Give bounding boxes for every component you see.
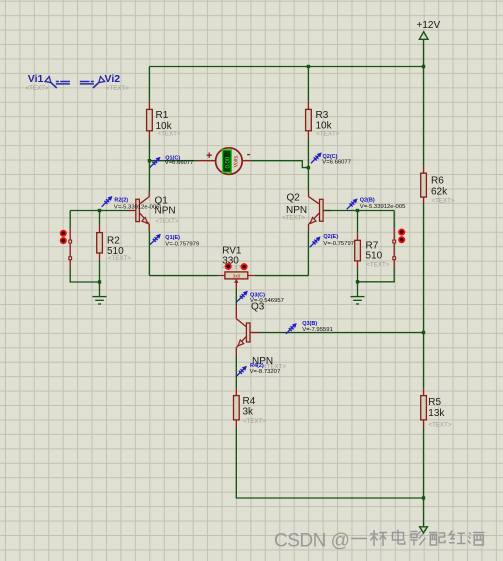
svg-text:510: 510	[366, 250, 383, 261]
svg-text:Volts: Volts	[234, 155, 240, 167]
transistor Q3	[236, 301, 286, 370]
node junction dot rail-R3	[307, 65, 310, 68]
voltage probe Q2(B)	[347, 198, 406, 211]
label Vi2	[105, 73, 130, 92]
wire collector node Q1 to meter	[149, 160, 196, 162]
wire R6 to base node	[423, 205, 425, 333]
svg-text:<TEXT>: <TEXT>	[432, 197, 455, 204]
svg-text:0.00: 0.00	[225, 156, 231, 168]
wire Q3 base to R5 node	[258, 332, 424, 334]
svg-text:3k: 3k	[243, 407, 255, 418]
voltage probe R2(2)	[102, 197, 161, 211]
transistor Q2	[282, 191, 331, 232]
svg-text:R2(2): R2(2)	[114, 197, 128, 203]
wire R1 column	[148, 67, 150, 161]
source element right (Vi2 source body)	[393, 228, 405, 268]
resistor R4	[234, 388, 267, 427]
resistor R6	[421, 67, 455, 205]
svg-text:V=-8.73207: V=-8.73207	[250, 369, 281, 375]
voltmeter	[197, 148, 251, 175]
node junction dot R7 top	[356, 209, 359, 212]
svg-text:<TEXT>: <TEXT>	[366, 262, 389, 269]
svg-text:V=-5.33912e-005: V=-5.33912e-005	[114, 205, 160, 211]
svg-text:V=-0.757979: V=-0.757979	[323, 241, 357, 247]
svg-text:R3: R3	[316, 110, 329, 121]
wire R5 to ground arrow	[423, 428, 425, 527]
power terminal +12V	[417, 20, 441, 39]
svg-text:<TEXT>: <TEXT>	[316, 131, 339, 138]
voltage probe Q1(C)	[150, 155, 194, 167]
wire R3 column	[307, 67, 309, 168]
node junction dot rail-R6	[422, 65, 425, 68]
node junction dot Q2 collector	[307, 166, 310, 169]
svg-text:R6: R6	[431, 176, 444, 187]
resistor R2	[97, 211, 132, 283]
potentiometer RV1	[218, 245, 255, 289]
wire RV1 wiper to Q3	[235, 289, 237, 305]
svg-text:V=6.66077: V=6.66077	[165, 160, 194, 166]
svg-text:R4: R4	[243, 396, 256, 407]
svg-text:V=-7.95591: V=-7.95591	[302, 327, 333, 333]
wire Q1 base net	[70, 211, 128, 229]
wire R2 to ground	[99, 282, 101, 297]
wire RV1 to Q2 emitter	[255, 275, 309, 277]
svg-text:<TEXT>: <TEXT>	[429, 421, 452, 428]
ground left	[93, 297, 107, 304]
voltage probe R4(2)	[236, 363, 280, 377]
voltage probe Q1(E)	[150, 235, 199, 248]
svg-text:Q2(E): Q2(E)	[323, 234, 338, 240]
wire emitter rail to RV1	[149, 275, 217, 277]
transistor Q1	[128, 191, 179, 232]
svg-text:V=-0.757979: V=-0.757979	[165, 242, 199, 248]
wire Q1 collector	[148, 161, 150, 191]
wire Q2 collector	[307, 168, 309, 191]
label Vi1	[26, 73, 49, 92]
svg-text:R5: R5	[428, 397, 441, 408]
svg-text:62k: 62k	[431, 186, 448, 197]
svg-text:V=-5.33912e-005: V=-5.33912e-005	[360, 204, 406, 210]
voltage probe Q2(C)	[311, 153, 351, 165]
resistor R5	[421, 333, 452, 429]
svg-text:Q2: Q2	[287, 192, 301, 203]
wire +12V rail top	[149, 39, 423, 66]
wire Q1 emitter down	[148, 231, 150, 275]
ground right	[351, 297, 365, 304]
voltage probe Q3(C)	[237, 291, 284, 304]
svg-text:Vi1: Vi1	[28, 73, 44, 85]
svg-text:Vi2: Vi2	[105, 73, 121, 85]
resistor R7	[355, 211, 390, 282]
wire Q2 base net	[324, 211, 395, 229]
resistor R3	[306, 102, 340, 139]
node junction dot base-R6-R5	[422, 331, 425, 334]
svg-text:R1: R1	[156, 110, 169, 121]
generator Vi2	[80, 77, 105, 89]
svg-text:<TEXT>: <TEXT>	[282, 214, 305, 221]
svg-text:<TEXT>: <TEXT>	[106, 85, 129, 92]
svg-text:Q1(E): Q1(E)	[165, 235, 180, 241]
node junction dot R7 bottom	[356, 280, 359, 283]
resistor R1	[147, 102, 181, 139]
svg-text:<TEXT>: <TEXT>	[243, 418, 266, 425]
watermark	[274, 530, 485, 552]
generator Vi1	[45, 77, 70, 89]
node junction dot Q1 collector	[148, 159, 151, 162]
svg-text:<TEXT>: <TEXT>	[26, 85, 49, 92]
svg-text:V=6.66077: V=6.66077	[322, 159, 351, 165]
wire R7 to ground	[357, 282, 359, 297]
voltage probe Q2(E)	[310, 234, 358, 247]
wire Q3 emitter to R4	[235, 357, 237, 389]
wire R4 to bottom rail	[236, 428, 423, 499]
svg-text:Q3: Q3	[251, 301, 265, 312]
svg-text:3x0: 3x0	[233, 274, 241, 279]
svg-text:R2: R2	[107, 236, 120, 247]
source element left (Vi1 source body)	[61, 228, 72, 268]
svg-text:CSDN @: CSDN @	[274, 531, 349, 552]
voltage probe Q3(B)	[286, 321, 333, 334]
node junction dot bottom rail	[422, 496, 425, 499]
svg-text:+12V: +12V	[417, 20, 441, 31]
node junction dot R2 bottom	[98, 280, 101, 283]
wire meter to collector node Q2	[251, 161, 309, 168]
node junction dot R2 top	[98, 209, 101, 212]
ground arrow bottom	[420, 527, 428, 533]
wire Vi1 source to ground rail	[70, 268, 99, 282]
svg-text:13k: 13k	[428, 408, 445, 419]
svg-text:<TEXT>: <TEXT>	[158, 131, 181, 138]
svg-text:<TEXT>: <TEXT>	[108, 255, 131, 262]
wire Q2 emitter down	[307, 231, 309, 275]
svg-text:<TEXT>: <TEXT>	[156, 218, 179, 225]
wire Vi2 source to ground rail	[358, 268, 395, 282]
svg-text:Q2(B): Q2(B)	[360, 198, 375, 204]
